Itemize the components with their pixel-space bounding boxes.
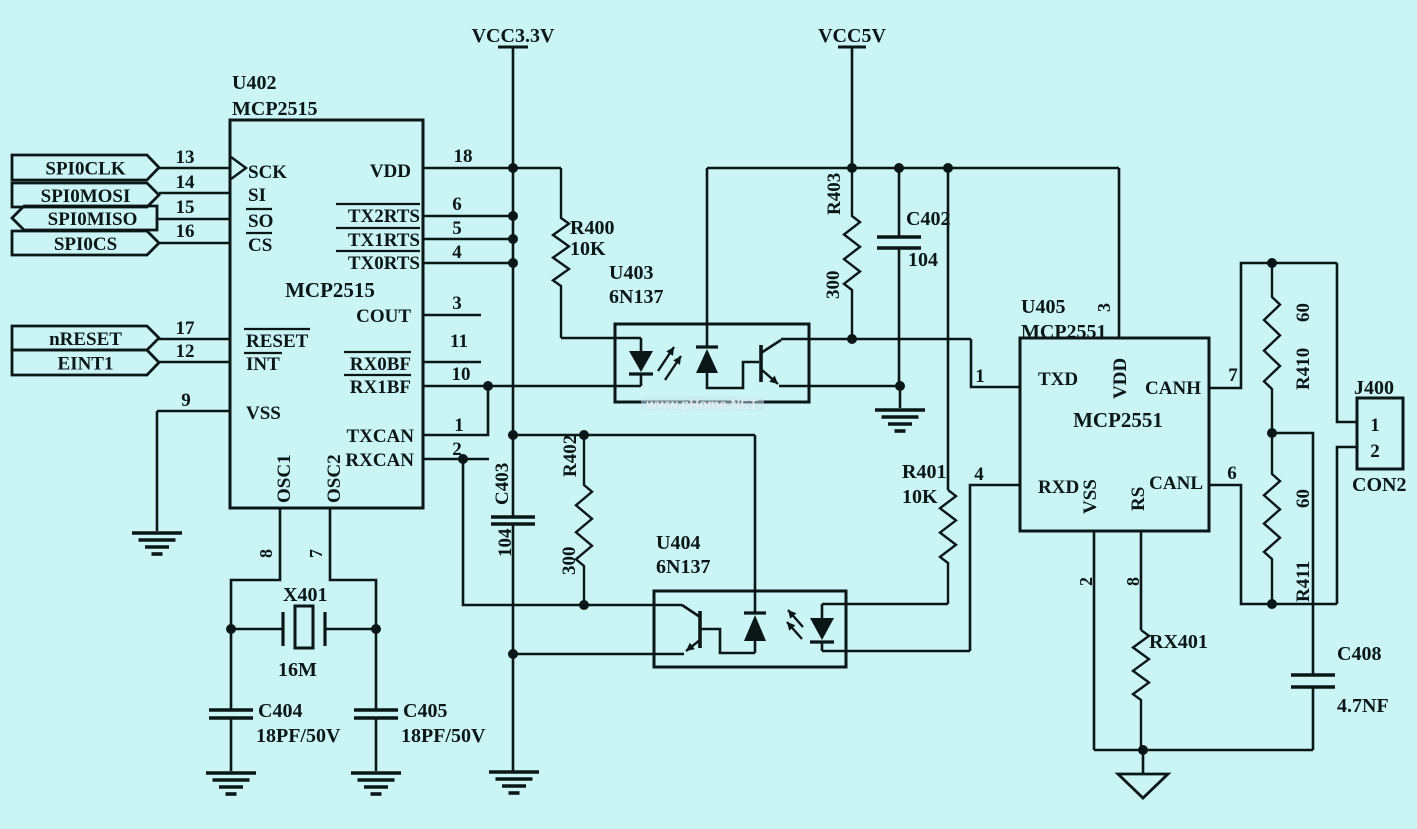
wire SPI0MOSI to SI pin 14 <box>159 192 230 195</box>
capacitor C408 <box>1291 673 1335 676</box>
svg-text:1: 1 <box>1370 415 1380 436</box>
resistor RX401 <box>1133 630 1149 750</box>
svg-text:U404: U404 <box>656 532 700 554</box>
junction rail-TXCAN line <box>508 430 518 440</box>
wire VCC3.3V rail down <box>512 47 515 516</box>
wire RXCAN down to U404 collector <box>463 459 654 605</box>
capacitor C404 <box>209 708 253 711</box>
svg-text:3: 3 <box>1094 303 1114 312</box>
svg-text:18: 18 <box>454 146 473 167</box>
svg-text:CANL: CANL <box>1149 473 1203 494</box>
svg-text:10K: 10K <box>570 238 606 260</box>
svg-text:6: 6 <box>452 194 462 215</box>
svg-text:6N137: 6N137 <box>609 286 663 308</box>
flag SPI0MOSI <box>12 183 159 207</box>
junction rail-pin4 <box>508 258 518 268</box>
svg-text:6N137: 6N137 <box>656 556 710 578</box>
capacitor C405 <box>354 708 398 711</box>
svg-text:C403: C403 <box>492 463 513 505</box>
wire TX2RTS pin 6 to rail <box>423 215 513 218</box>
U404 base to photodiode <box>701 629 755 653</box>
U403 photodiode to base <box>707 362 759 388</box>
flag EINT1 <box>12 350 159 375</box>
svg-text:SPI0CS: SPI0CS <box>54 234 117 255</box>
U404 LED emit arrow 1 <box>788 610 803 627</box>
junction rail-pin5 <box>508 234 518 244</box>
svg-text:104: 104 <box>908 249 938 271</box>
svg-text:CS: CS <box>248 235 272 256</box>
wire C402 top <box>898 168 901 236</box>
svg-text:RXD: RXD <box>1038 477 1079 498</box>
svg-text:MCP2551: MCP2551 <box>1073 408 1163 432</box>
junction R410 top <box>1267 258 1277 268</box>
svg-text:R402: R402 <box>560 435 581 477</box>
junction crystal right <box>371 624 381 634</box>
svg-text:TXCAN: TXCAN <box>346 426 414 447</box>
wire CANL to J400 pin 2 <box>1337 447 1357 604</box>
svg-text:R411: R411 <box>1293 561 1314 602</box>
wire SPI0CS to CS pin 16 <box>159 242 230 245</box>
wire R400 bottom to U403 LED anode <box>561 337 641 340</box>
svg-text:1: 1 <box>454 415 464 436</box>
svg-text:R403: R403 <box>824 173 845 215</box>
SCK clock input arrow <box>231 157 246 179</box>
U403 LED emit arrow 2 <box>665 356 681 380</box>
wire midpoint to C408 <box>1272 433 1313 674</box>
wire rail to R402 top and U404 diode <box>513 434 755 437</box>
svg-text:4.7NF: 4.7NF <box>1337 695 1389 717</box>
junction rail-pin6 <box>508 211 518 221</box>
svg-text:60: 60 <box>1293 489 1314 508</box>
junction R401 top <box>943 163 953 173</box>
resistor R401 10K <box>940 490 956 604</box>
svg-text:2: 2 <box>1370 441 1380 462</box>
wire RXCAN pin 2 <box>423 458 489 461</box>
svg-text:14: 14 <box>176 172 196 193</box>
wire TX1RTS pin 5 to rail <box>423 238 513 241</box>
junction R402 top <box>579 430 589 440</box>
svg-text:5: 5 <box>452 218 462 239</box>
svg-text:C402: C402 <box>906 208 950 230</box>
svg-text:VSS: VSS <box>1080 479 1101 514</box>
svg-text:4: 4 <box>452 242 462 263</box>
wire U404 emitter to ground rail <box>513 653 684 656</box>
ground <box>132 531 182 535</box>
svg-text:COUT: COUT <box>356 306 411 327</box>
svg-text:C408: C408 <box>1337 643 1381 665</box>
U404 output transistor <box>654 604 682 607</box>
wire SPI0CLK to SCK pin 13 <box>159 167 230 170</box>
svg-text:R410: R410 <box>1293 348 1314 390</box>
wire RXD net to U405 pin 4 <box>970 485 1020 651</box>
svg-text:VCC5V: VCC5V <box>818 25 886 47</box>
svg-text:4: 4 <box>974 464 984 485</box>
svg-text:SPI0MOSI: SPI0MOSI <box>41 186 131 207</box>
U404 LED emit arrow 2 <box>787 622 802 639</box>
svg-text:TX0RTS: TX0RTS <box>348 253 420 274</box>
U404 emitter arrow <box>686 640 700 651</box>
junction RX401-ground <box>1138 745 1148 755</box>
svg-text:MCP2551: MCP2551 <box>1021 321 1107 343</box>
optocoupler U403 body <box>615 324 809 402</box>
svg-text:18PF/50V: 18PF/50V <box>401 725 486 747</box>
junction emitter-ground rail <box>508 649 518 659</box>
svg-text:SPI0MISO: SPI0MISO <box>48 209 138 230</box>
svg-text:EINT1: EINT1 <box>58 354 114 375</box>
svg-text:RXCAN: RXCAN <box>345 450 414 471</box>
flag SPI0CS <box>12 231 159 255</box>
wire RX1BF pin 10 to U403 LED cathode <box>423 385 641 388</box>
svg-text:R400: R400 <box>570 217 614 239</box>
junction R410-R411 midpoint <box>1267 428 1277 438</box>
svg-text:CON2: CON2 <box>1352 474 1406 496</box>
svg-text:OSC2: OSC2 <box>324 454 345 503</box>
flag nRESET <box>12 326 159 350</box>
svg-text:SI: SI <box>248 185 266 206</box>
junction R402 bottom <box>579 600 589 610</box>
junction emitter-C402-ground <box>895 381 905 391</box>
svg-text:60: 60 <box>1293 303 1314 322</box>
ground <box>351 771 401 775</box>
resistor R400 10K <box>553 168 569 338</box>
svg-text:10K: 10K <box>902 486 938 508</box>
svg-text:TX2RTS: TX2RTS <box>348 206 420 227</box>
capacitor C403 <box>491 515 535 518</box>
wire VCC5V line to U403 photodiode <box>706 168 709 347</box>
wire TXCAN pin 1 up to RX1BF net <box>423 386 488 435</box>
svg-text:RX0BF: RX0BF <box>350 354 411 375</box>
svg-text:8: 8 <box>256 549 276 558</box>
svg-text:10: 10 <box>452 364 471 385</box>
ground <box>206 771 256 775</box>
svg-text:SO: SO <box>248 211 273 232</box>
svg-text:C405: C405 <box>403 700 447 722</box>
U403 output transistor <box>759 345 763 382</box>
junction VCC5V <box>847 163 857 173</box>
wire SPI0MISO to SO pin 15 <box>157 218 230 221</box>
U403 emitter arrow <box>762 370 778 384</box>
svg-text:16: 16 <box>176 221 195 242</box>
svg-text:U403: U403 <box>609 262 653 284</box>
svg-text:MCP2515: MCP2515 <box>232 98 318 120</box>
svg-text:U402: U402 <box>232 72 276 94</box>
resistor R402 <box>576 435 592 605</box>
wire U403 emitter to ground <box>779 385 900 388</box>
wire CANH to termination rail <box>1209 263 1337 388</box>
watermark <box>641 397 764 411</box>
svg-text:11: 11 <box>450 331 468 352</box>
wire RX0BF pin 11 stub <box>423 361 481 364</box>
svg-text:13: 13 <box>176 147 195 168</box>
wire R401 bottom to U404 LED anode <box>822 603 948 606</box>
svg-text:nRESET: nRESET <box>49 329 122 350</box>
svg-text:3: 3 <box>452 293 462 314</box>
svg-text:300: 300 <box>559 547 580 576</box>
IC U405 MCP2551 body <box>1020 338 1209 531</box>
capacitor C402 104 <box>877 235 921 238</box>
wire TXD net to U405 pin 1 <box>971 339 1020 387</box>
svg-text:J400: J400 <box>1354 377 1394 399</box>
svg-text:VCC3.3V: VCC3.3V <box>472 25 555 47</box>
wire 5V distribution line <box>707 167 1119 170</box>
svg-text:RS: RS <box>1128 487 1149 511</box>
wire bottom ground rail <box>1094 749 1313 752</box>
svg-text:RX1BF: RX1BF <box>350 377 411 398</box>
wire COUT pin 3 stub <box>423 314 481 317</box>
svg-text:SCK: SCK <box>248 162 287 183</box>
svg-text:OSC1: OSC1 <box>274 454 295 503</box>
U403 LED emit arrow 1 <box>658 347 674 371</box>
svg-text:VSS: VSS <box>246 403 281 424</box>
connector J400 body <box>1357 398 1403 469</box>
resistor R411 60 <box>1264 433 1280 604</box>
svg-text:CANH: CANH <box>1145 378 1201 399</box>
U404 photodiode <box>744 611 766 614</box>
wire CANL to termination rail <box>1209 485 1337 604</box>
wire VSS pin 2 down <box>1093 531 1096 750</box>
wire VSS pin 9 <box>157 410 230 413</box>
svg-text:VDD: VDD <box>1110 358 1131 399</box>
wire C408 bottom <box>1312 687 1315 750</box>
wire OSC1 to crystal <box>231 508 280 709</box>
flag SPI0CLK <box>12 155 159 180</box>
resistor R403 300 <box>844 168 860 339</box>
svg-text:18PF/50V: 18PF/50V <box>256 725 341 747</box>
svg-text:SPI0CLK: SPI0CLK <box>45 159 125 180</box>
svg-text:U405: U405 <box>1021 296 1065 318</box>
wire VCC5V down <box>851 47 854 168</box>
svg-text:TX1RTS: TX1RTS <box>348 230 420 251</box>
junction R411 bottom <box>1267 599 1277 609</box>
svg-text:www.pHome.NET: www.pHome.NET <box>645 397 758 412</box>
crystal X401 <box>231 628 283 631</box>
svg-text:15: 15 <box>176 197 195 218</box>
svg-text:6: 6 <box>1227 463 1237 484</box>
svg-text:RX401: RX401 <box>1149 631 1208 653</box>
svg-text:INT: INT <box>246 354 280 375</box>
wire VSS to ground <box>156 411 159 531</box>
svg-text:17: 17 <box>176 318 196 339</box>
wire U404 LED cathode to RXD net <box>822 650 970 653</box>
wire EINT1 to INT pin 12 <box>159 361 230 364</box>
IC U402 MCP2515 body <box>230 120 423 508</box>
svg-text:300: 300 <box>823 271 844 300</box>
flag SPI0MISO <box>12 206 157 230</box>
wire R401 top <box>947 168 950 490</box>
wire down to U404 photodiode cathode <box>754 435 757 613</box>
wire 5V to U405 VDD pin 3 <box>1118 168 1121 338</box>
svg-text:16M: 16M <box>278 659 317 681</box>
ground <box>875 408 925 412</box>
svg-text:TXD: TXD <box>1038 369 1078 390</box>
svg-text:9: 9 <box>181 390 191 411</box>
wire C402 bottom to ground junction <box>898 248 901 386</box>
svg-text:C404: C404 <box>258 700 302 722</box>
wire C403 bottom to ground <box>512 524 515 771</box>
svg-text:R401: R401 <box>902 461 946 483</box>
wire OSC2 to crystal <box>330 508 376 709</box>
U403 LED <box>640 338 643 351</box>
junction RX1BF-TXCAN <box>483 381 493 391</box>
junction rail-VDD <box>508 163 518 173</box>
svg-text:VDD: VDD <box>370 161 411 182</box>
wire VDD pin 18 to rail and R400 <box>423 167 561 170</box>
svg-text:7: 7 <box>1228 365 1238 386</box>
ground <box>489 770 539 774</box>
junction C402 top <box>894 163 904 173</box>
svg-text:X401: X401 <box>283 584 327 606</box>
wire TX0RTS pin 4 to rail <box>423 262 513 265</box>
svg-text:7: 7 <box>306 549 326 558</box>
svg-text:MCP2515: MCP2515 <box>285 278 375 302</box>
junction RXCAN <box>458 454 468 464</box>
junction R403 bottom <box>847 334 857 344</box>
wire RS pin 8 down <box>1140 531 1143 630</box>
resistor R410 60 <box>1264 263 1280 433</box>
optocoupler U404 body <box>654 591 846 667</box>
svg-text:RESET: RESET <box>246 331 309 352</box>
svg-text:12: 12 <box>176 341 195 362</box>
wire U403 collector / TXD net <box>781 338 971 341</box>
wire nRESET to RESET pin 17 <box>159 338 230 341</box>
svg-text:1: 1 <box>975 366 985 387</box>
ground (open triangle) <box>1118 774 1168 798</box>
junction crystal left <box>226 624 236 634</box>
U404 LED <box>821 604 824 618</box>
wire CANH to J400 pin 1 <box>1337 263 1357 422</box>
